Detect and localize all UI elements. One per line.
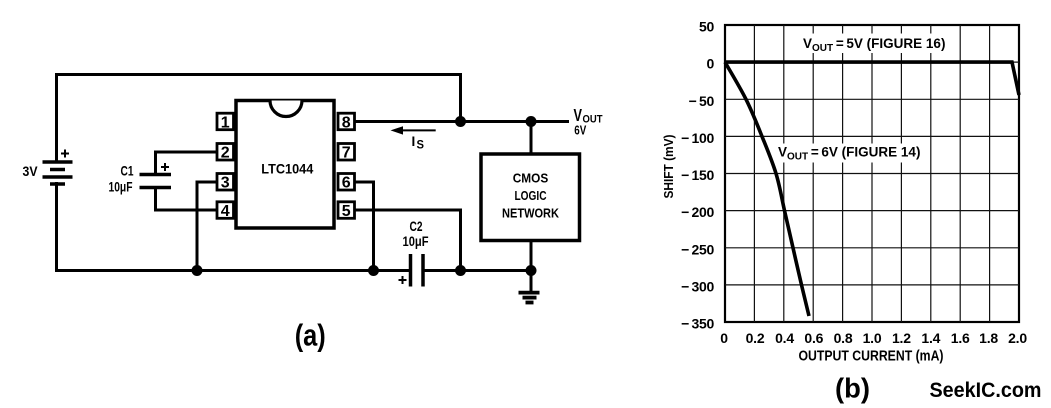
wire bottom ground rail left segment — [57, 182, 411, 271]
svg-text:1: 1 — [221, 114, 230, 131]
wire pin 8 to VOUT — [354, 120, 569, 123]
chart label VOUT=6V (FIGURE 14) background — [775, 144, 918, 163]
svg-text:NETWORK: NETWORK — [502, 207, 559, 221]
op IC U1 LTC1044 body — [236, 101, 334, 229]
svg-text:LOGIC: LOGIC — [515, 189, 547, 203]
svg-text:0: 0 — [720, 330, 728, 346]
capacitor C2 — [399, 254, 424, 287]
svg-text:− 300: − 300 — [681, 278, 714, 294]
svg-text:C1: C1 — [121, 164, 134, 179]
svg-text:3: 3 — [221, 175, 230, 192]
svg-text:6V: 6V — [574, 124, 587, 138]
svg-text:SeekIC.com: SeekIC.com — [930, 379, 1042, 402]
x axis tick labels — [720, 330, 1027, 346]
pin 6 — [338, 174, 355, 192]
svg-text:10μF: 10μF — [109, 180, 133, 195]
node ground-rail junction — [526, 265, 537, 276]
svg-text:2: 2 — [221, 145, 230, 162]
node pin3-rail junction — [192, 265, 203, 276]
chart grid — [725, 25, 1019, 322]
wire top rail from battery + to pin 8 drop — [57, 75, 461, 163]
wire C1 bottom to pin 4 — [156, 188, 218, 211]
svg-text:8: 8 — [342, 114, 351, 131]
pin 1 — [217, 113, 234, 131]
node CMOS-VOUT junction — [526, 116, 537, 127]
capacitor C1 — [140, 163, 172, 188]
svg-text:2.0: 2.0 — [1008, 330, 1027, 346]
CMOS logic network box U2 — [481, 154, 580, 241]
curve VOUT=5V — [725, 62, 1019, 95]
svg-text:V: V — [574, 105, 583, 125]
svg-text:− 150: − 150 — [681, 167, 714, 183]
arrow current IS — [391, 126, 436, 152]
svg-text:3V: 3V — [23, 163, 39, 179]
svg-text:S: S — [417, 138, 425, 152]
pin 5 — [338, 202, 355, 220]
y axis tick labels — [681, 19, 714, 332]
svg-text:0.8: 0.8 — [834, 330, 853, 346]
svg-text:10μF: 10μF — [403, 234, 429, 249]
node pin6-rail junction — [368, 265, 379, 276]
ground — [519, 271, 540, 303]
wire pin 3 to ground rail — [197, 182, 217, 271]
pin 2 — [217, 144, 234, 162]
svg-text:SHIFT (mV): SHIFT (mV) — [661, 135, 676, 199]
svg-text:CMOS: CMOS — [513, 172, 549, 186]
curve VOUT=6V — [725, 62, 809, 316]
svg-text:− 50: − 50 — [689, 93, 715, 109]
svg-text:6: 6 — [342, 175, 351, 192]
battery B1 — [43, 150, 73, 185]
svg-text:1.2: 1.2 — [892, 330, 911, 346]
svg-text:50: 50 — [699, 19, 714, 35]
svg-text:0: 0 — [707, 56, 715, 72]
svg-text:1.8: 1.8 — [979, 330, 998, 346]
node top rail to pin8 junction — [455, 116, 466, 127]
svg-text:7: 7 — [342, 145, 351, 162]
pin 3 — [217, 174, 234, 192]
wire CMOS bottom to ground rail — [530, 241, 533, 271]
svg-text:1.6: 1.6 — [951, 330, 970, 346]
pin 7 — [338, 144, 355, 162]
svg-text:C2: C2 — [410, 219, 423, 234]
wire pin 2 to C1 top — [156, 152, 218, 175]
chart label VOUT=5V (FIGURE 16) background — [800, 34, 945, 54]
svg-text:(a): (a) — [295, 318, 326, 353]
svg-text:4: 4 — [221, 203, 230, 220]
wire pin 5 to rail right of C2 — [355, 210, 461, 271]
svg-text:− 250: − 250 — [681, 241, 714, 257]
svg-text:− 350: − 350 — [681, 316, 714, 332]
pin 8 — [338, 113, 355, 131]
wire pin 6 to ground rail — [355, 182, 374, 271]
wire CMOS top to VOUT line — [530, 122, 533, 155]
svg-text:5: 5 — [342, 203, 351, 220]
node pin5-rail junction — [455, 265, 466, 276]
svg-text:OUTPUT CURRENT (mA): OUTPUT CURRENT (mA) — [799, 349, 944, 365]
svg-text:(b): (b) — [835, 373, 870, 404]
svg-text:0.2: 0.2 — [746, 330, 765, 346]
svg-text:− 200: − 200 — [681, 204, 714, 220]
svg-text:0.4: 0.4 — [775, 330, 794, 346]
svg-text:I: I — [412, 134, 416, 149]
svg-text:0.6: 0.6 — [804, 330, 823, 346]
chart plot border — [725, 25, 1019, 322]
pin 4 — [217, 202, 234, 220]
svg-text:− 100: − 100 — [681, 130, 714, 146]
svg-text:1.4: 1.4 — [921, 330, 940, 346]
wire bottom ground rail right segment — [423, 269, 531, 272]
svg-text:1.0: 1.0 — [863, 330, 882, 346]
svg-text:LTC1044: LTC1044 — [261, 161, 313, 177]
